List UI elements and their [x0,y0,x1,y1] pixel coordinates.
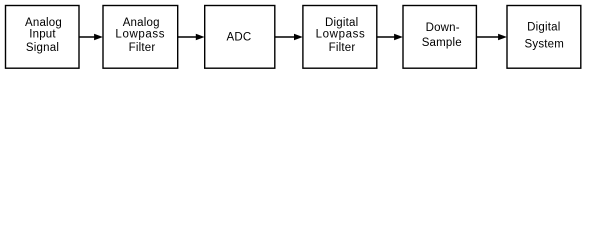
svg-text:Input: Input [29,28,56,40]
svg-text:Signal: Signal [26,42,59,54]
svg-text:Down-: Down- [426,22,460,34]
svg-text:Lowpass: Lowpass [115,28,165,40]
svg-text:Digital: Digital [325,17,358,29]
svg-text:Analog: Analog [25,17,62,29]
svg-text:System: System [525,39,565,51]
wire: arrow 5 [476,34,507,41]
block: Analog Input Signal [6,6,80,69]
wire: arrow 3 [275,34,303,41]
wire: arrow 1 [79,34,103,41]
block: Digital System [507,6,581,69]
svg-text:Filter: Filter [129,42,156,54]
wire: arrow 2 [178,34,205,41]
svg-text:ADC: ADC [227,32,252,44]
block: Digital Lowpass Filter [303,6,377,69]
block: ADC [205,6,275,69]
block: Analog Lowpass Filter [103,6,178,69]
svg-text:Lowpass: Lowpass [316,28,366,40]
svg-text:Filter: Filter [329,42,356,54]
svg-text:Sample: Sample [422,37,462,49]
svg-text:Digital: Digital [527,22,560,34]
block: Down-Sample [403,6,476,69]
svg-text:Analog: Analog [123,17,160,29]
wire: arrow 4 [377,34,403,41]
